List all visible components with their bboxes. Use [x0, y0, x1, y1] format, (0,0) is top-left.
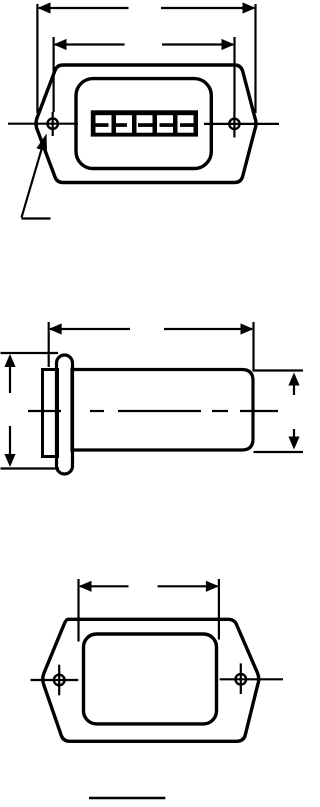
arrowhead right (hole spacing)	[222, 39, 235, 50]
hour meter outer case outline (front view)	[36, 65, 256, 183]
arrowhead left (rear width)	[79, 581, 92, 592]
arrowhead right (rear width)	[206, 581, 219, 592]
rear left mounting hole center line vertical	[58, 665, 60, 696]
extension line left (hole center)	[52, 37, 54, 112]
arrowhead right (overall length)	[241, 323, 254, 334]
leader label underline	[22, 217, 51, 219]
extension line right (case rear)	[252, 322, 254, 370]
left mounting hole center line horizontal	[8, 123, 78, 125]
arrowhead right (overall width)	[243, 2, 256, 13]
right mounting hole center line horizontal	[204, 123, 279, 125]
right mounting hole	[229, 119, 239, 129]
rear right mounting hole center line horizontal	[220, 678, 283, 680]
dimension line: overall length (side view)	[50, 328, 252, 330]
rear left mounting hole	[54, 675, 65, 686]
digit cell 5	[178, 115, 194, 133]
rear right mounting hole	[236, 674, 247, 685]
arrowhead left (overall length)	[49, 323, 62, 334]
rear right mounting hole center line vertical	[240, 663, 242, 694]
center line (side view)	[28, 410, 278, 412]
digit cell 2	[116, 115, 132, 133]
right diameter dimension extension line top	[253, 369, 304, 371]
right diameter dimension extension line bottom	[254, 451, 304, 453]
rear left mounting hole center line horizontal	[31, 679, 79, 681]
extension line right (hole center)	[233, 37, 235, 112]
arrowhead left (overall width)	[38, 2, 51, 13]
digit cell 1	[96, 115, 112, 133]
digit cell 4	[157, 115, 173, 133]
arrowhead up (flange height)	[4, 354, 15, 367]
extension line right (rear width)	[218, 579, 220, 640]
flange capsule (side view)	[57, 355, 73, 474]
leader arrowhead	[36, 134, 47, 152]
left height dimension line	[9, 356, 11, 464]
front bezel rounded rectangle	[76, 79, 211, 169]
right mounting hole center line vertical	[233, 112, 235, 138]
arrowhead down (flange height)	[4, 454, 15, 467]
left mounting hole	[48, 119, 58, 129]
counter window frame	[91, 110, 198, 136]
arrowhead left (hole spacing)	[54, 39, 67, 50]
arrowhead up (body diameter)	[288, 373, 299, 386]
arrowhead down (body diameter)	[288, 437, 299, 450]
left mounting hole center line vertical	[52, 112, 54, 136]
digit split bar cell 4	[160, 123, 174, 127]
digit cell 3	[137, 115, 153, 133]
digit split bar cell 2	[116, 123, 127, 127]
meter case body (side view)	[72, 370, 253, 451]
extension line left (overall width)	[36, 4, 38, 113]
extension line left (mounting face)	[48, 322, 50, 367]
digit split bar cell 1	[96, 123, 109, 127]
mounting plate (side view)	[43, 370, 58, 457]
rear case outline	[43, 619, 259, 741]
dimension line: connector width (rear view)	[80, 585, 218, 587]
digit split bar cell 5	[180, 123, 194, 127]
left height dimension extension line bottom	[1, 467, 60, 469]
dimension line: overall width (top)	[39, 7, 254, 9]
digit split bar cell 3	[138, 123, 153, 127]
right diameter dimension line	[293, 375, 295, 447]
extension line right (overall width)	[254, 4, 256, 113]
caption underline	[89, 797, 165, 799]
left height dimension extension line top	[1, 352, 59, 354]
extension line left (rear width)	[77, 579, 79, 642]
rear connector rounded rectangle	[84, 634, 217, 724]
dimension line: mounting hole spacing	[55, 43, 233, 45]
leader line to left mounting hole	[22, 146, 43, 218]
